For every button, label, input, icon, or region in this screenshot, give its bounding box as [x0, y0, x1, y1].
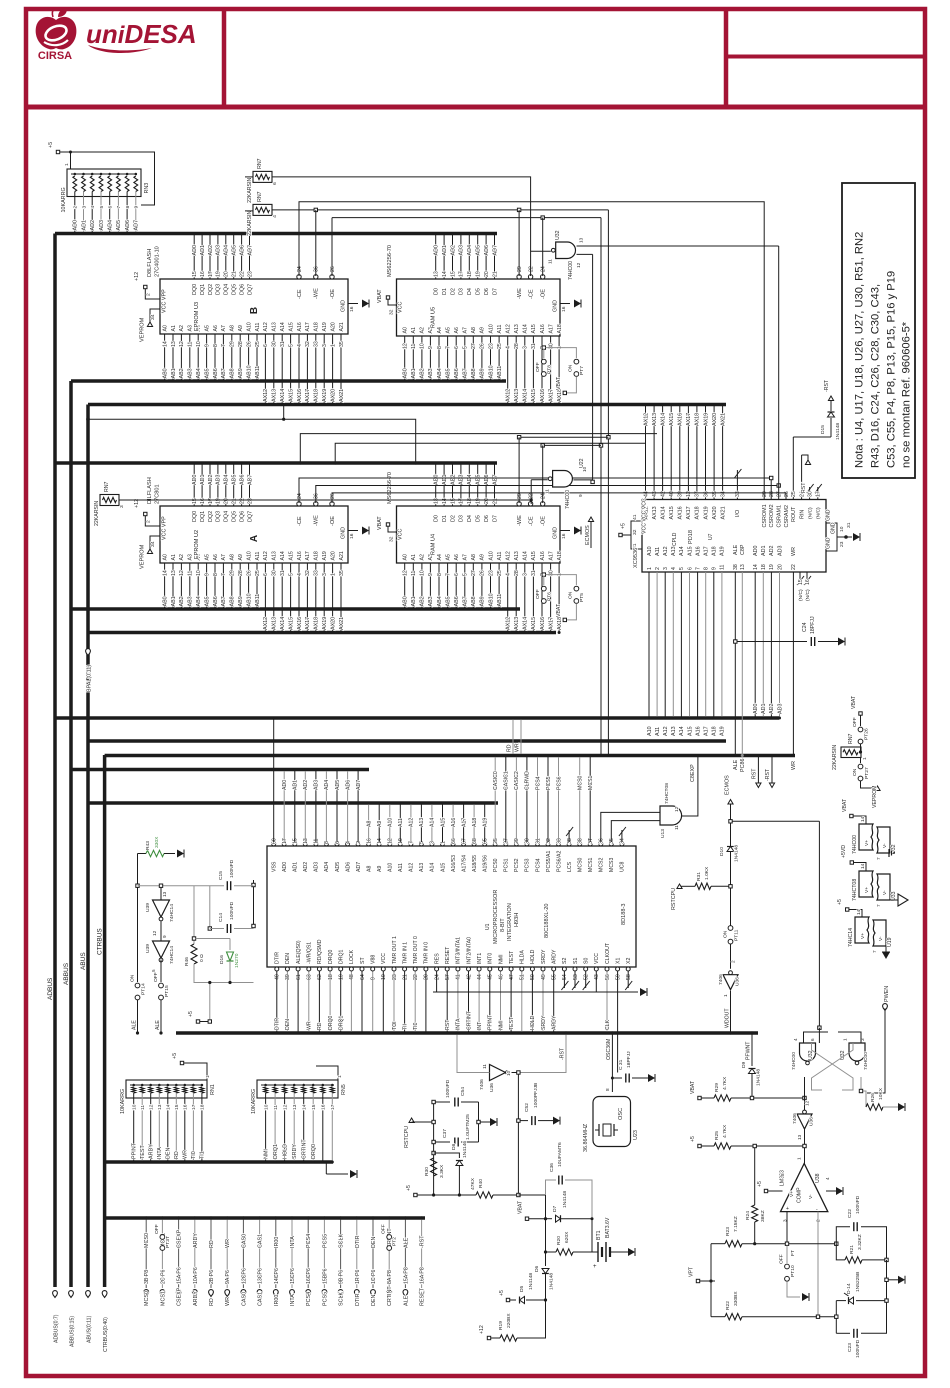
svg-text:18PFJJ: 18PFJJ: [626, 1051, 632, 1068]
inverter U36c 7406: [792, 1098, 815, 1148]
wire vert 601 channel: [599, 218, 602, 757]
svg-text:DEN: DEN: [285, 953, 291, 964]
AD bus row2: [55, 461, 497, 465]
A address bus mid: [55, 716, 779, 720]
svg-text:AB1: AB1: [171, 368, 177, 378]
svg-text:39: 39: [285, 974, 291, 980]
U7 AX pins: [643, 403, 726, 520]
svg-text:32: 32: [546, 838, 552, 844]
svg-text:U23: U23: [633, 1130, 639, 1140]
svg-text:11: 11: [411, 344, 417, 349]
svg-text:A11: A11: [255, 323, 261, 332]
svg-text:100NFD: 100NFD: [855, 1195, 861, 1214]
svg-text:A: A: [249, 535, 260, 542]
svg-text:INT2/INTA0: INT2/INTA0: [466, 937, 472, 964]
svg-text:D6: D6: [534, 1265, 540, 1272]
svg-text:32: 32: [632, 529, 638, 535]
svg-text:AD1: AD1: [200, 475, 206, 486]
svg-text:CLRWD: CLRWD: [525, 771, 531, 790]
resistor RN7c 22KARSIN: [94, 482, 125, 526]
svg-text:4: 4: [90, 206, 96, 209]
svg-text:A9: A9: [377, 866, 383, 872]
svg-text:AB3: AB3: [188, 368, 194, 378]
svg-text:10: 10: [132, 1104, 138, 1110]
AD bus row1: [55, 232, 497, 236]
svg-text:MCS0: MCS0: [144, 1233, 150, 1248]
svg-text:DQ0: DQ0: [192, 511, 198, 522]
svg-text:31: 31: [280, 570, 286, 576]
svg-text:AX12: AX12: [263, 617, 269, 630]
AB bus row2: [71, 607, 520, 611]
svg-text:ARDY: ARDY: [552, 949, 558, 964]
wire U2 OE select: [332, 493, 786, 503]
svg-text:A14: A14: [430, 863, 436, 872]
svg-text:AD2: AD2: [769, 546, 775, 557]
svg-text:2C P6: 2C P6: [160, 1269, 166, 1284]
wire RC mid gnd: [885, 1260, 905, 1301]
svg-text:DRQ0: DRQ0: [311, 1144, 317, 1159]
svg-text:11: 11: [140, 1105, 146, 1110]
svg-text:-OE: -OE: [541, 289, 547, 299]
svg-text:V-: V-: [878, 936, 884, 941]
svg-text:4: 4: [272, 215, 278, 218]
svg-text:RN7: RN7: [257, 158, 263, 168]
svg-text:AD4: AD4: [224, 245, 230, 256]
svg-text:28: 28: [514, 343, 520, 349]
svg-text:25: 25: [497, 343, 503, 349]
resistor R19 220BX: [479, 1300, 546, 1341]
svg-text:AD5: AD5: [232, 245, 238, 256]
svg-text:AB11: AB11: [255, 366, 261, 379]
svg-text:ARDY: ARDY: [149, 1144, 155, 1159]
svg-text:74HC14: 74HC14: [848, 928, 854, 947]
svg-text:620X: 620X: [564, 1231, 570, 1243]
svg-text:42: 42: [660, 491, 666, 497]
svg-text:7: 7: [409, 841, 415, 844]
svg-text:A19: A19: [483, 818, 489, 827]
svg-text:10: 10: [263, 1104, 269, 1110]
svg-text:AB3: AB3: [428, 596, 434, 606]
svg-text:7: 7: [872, 950, 877, 953]
svg-text:AD6: AD6: [239, 245, 245, 256]
svg-text:12: 12: [388, 838, 394, 844]
svg-text:15BP6: 15BP6: [322, 1268, 328, 1284]
svg-text:WR: WR: [791, 761, 797, 770]
svg-text:7: 7: [116, 206, 122, 209]
svg-text:U22: U22: [579, 458, 585, 468]
wire WE common: [272, 208, 608, 211]
svg-text:MCS1: MCS1: [588, 857, 594, 872]
svg-text:51: 51: [520, 974, 526, 980]
svg-text:B: B: [249, 307, 260, 314]
svg-text:33: 33: [314, 570, 320, 576]
svg-text:AX13: AX13: [514, 617, 520, 630]
svg-text:18: 18: [328, 974, 334, 980]
svg-text:D7: D7: [492, 288, 498, 295]
svg-text:CASIC0: CASIC0: [493, 771, 499, 790]
svg-text:INTA: INTA: [456, 1018, 462, 1030]
svg-text:COMP: COMP: [797, 1187, 803, 1203]
svg-text:100NFD: 100NFD: [229, 859, 235, 878]
svg-text:12: 12: [282, 1104, 288, 1110]
svg-text:VBAT: VBAT: [377, 289, 383, 303]
svg-text:31: 31: [531, 343, 537, 349]
svg-text:29: 29: [517, 493, 523, 499]
svg-text:AD7: AD7: [247, 245, 253, 255]
svg-text:NMI: NMI: [263, 1149, 269, 1159]
svg-text:AX21: AX21: [339, 389, 345, 402]
svg-text:AX17: AX17: [305, 617, 311, 630]
svg-text:4: 4: [506, 346, 512, 349]
svg-text:RST: RST: [752, 768, 758, 779]
svg-text:7: 7: [221, 344, 227, 347]
svg-text:330X: 330X: [154, 836, 160, 848]
svg-text:LOCK: LOCK: [349, 949, 355, 964]
svg-text:14: 14: [442, 271, 448, 277]
resistor R24 38KZ: [745, 1148, 766, 1246]
svg-text:A16: A16: [297, 551, 303, 560]
ABUS label: [80, 952, 87, 970]
svg-text:AB2: AB2: [179, 596, 185, 606]
svg-text:VBAT: VBAT: [518, 1200, 524, 1214]
wire U32 pin12 link: [577, 253, 593, 255]
svg-text:56: 56: [605, 974, 611, 980]
svg-text:1: 1: [797, 1157, 802, 1160]
svg-text:AB8: AB8: [471, 368, 477, 378]
terminal row bus: [105, 1216, 425, 1220]
svg-text:AD7: AD7: [247, 475, 253, 486]
svg-text:26: 26: [246, 341, 252, 347]
svg-text:AD2: AD2: [208, 245, 214, 256]
svg-text:AB2: AB2: [420, 368, 426, 378]
svg-text:ABBUS(0:15): ABBUS(0:15): [70, 1316, 76, 1347]
svg-text:A2: A2: [420, 554, 426, 560]
svg-text:U1: U1: [485, 923, 491, 930]
svg-text:A3: A3: [188, 554, 194, 560]
node +5 comparator: [757, 1181, 790, 1193]
svg-text:7.15KZ: 7.15KZ: [733, 1216, 739, 1232]
svg-text:8: 8: [437, 573, 443, 576]
svg-text:R26: R26: [870, 1093, 876, 1102]
jumper PT27 VEPROM: [852, 758, 880, 809]
svg-text:32: 32: [305, 570, 311, 576]
svg-text:36.864MHZ: 36.864MHZ: [583, 1123, 589, 1152]
node BPAL(0:11): [86, 633, 93, 693]
svg-text:VEPROM: VEPROM: [140, 544, 146, 569]
svg-text:CSEXP: CSEXP: [177, 1287, 183, 1306]
wire top rail 886: [138, 884, 225, 887]
svg-text:AD7: AD7: [356, 862, 362, 872]
svg-text:9: 9: [204, 573, 210, 576]
svg-text:AB6: AB6: [213, 368, 219, 378]
svg-text:AD1: AD1: [293, 780, 299, 790]
svg-text:4: 4: [297, 344, 303, 347]
svg-text:V+: V+: [789, 1191, 795, 1197]
wire vert 592 channel: [591, 254, 594, 483]
svg-text:AX13: AX13: [652, 506, 658, 519]
wire VBAT column down: [545, 1220, 547, 1266]
svg-text:U36: U36: [489, 1083, 495, 1092]
svg-text:S1: S1: [573, 958, 579, 964]
svg-text:DEN: DEN: [166, 1148, 172, 1159]
svg-text:AB3: AB3: [428, 368, 434, 378]
svg-text:DTIR: DTIR: [355, 1293, 361, 1306]
svg-text:5: 5: [99, 206, 105, 209]
svg-text:A11: A11: [398, 863, 404, 872]
svg-text:AD1: AD1: [442, 245, 448, 256]
svg-text:17: 17: [816, 491, 822, 497]
NAND gate U22 74HC00: [545, 458, 588, 509]
svg-text:6: 6: [810, 1038, 815, 1041]
svg-text:AX15: AX15: [531, 389, 537, 402]
U2 GND pin16: [341, 527, 370, 540]
svg-text:AB8: AB8: [471, 596, 477, 606]
svg-text:12: 12: [179, 570, 185, 576]
CPLD U7 box: [642, 500, 826, 573]
svg-text:AB11: AB11: [497, 366, 503, 379]
capacitor C24 18PFJJ: [734, 616, 845, 646]
U1 bottom pins: [275, 936, 633, 1072]
svg-text:AB8: AB8: [230, 596, 236, 606]
svg-text:74HC00: 74HC00: [863, 1052, 869, 1070]
svg-text:ARDY: ARDY: [193, 1291, 199, 1306]
svg-text:74HC00: 74HC00: [791, 1052, 797, 1070]
svg-text:RN3: RN3: [144, 183, 150, 194]
svg-text:-RST: -RST: [765, 768, 771, 781]
svg-text:A16: A16: [451, 818, 457, 827]
svg-text:DQ6: DQ6: [239, 284, 245, 295]
svg-text:VBAT: VBAT: [851, 695, 857, 709]
svg-text:3B P8: 3B P8: [144, 1270, 150, 1284]
svg-text:8D188-3: 8D188-3: [621, 904, 627, 925]
svg-text:1: 1: [205, 1075, 211, 1078]
svg-text:26: 26: [480, 343, 486, 349]
svg-text:1.0UFTM25: 1.0UFTM25: [465, 1114, 471, 1140]
svg-text:AX17: AX17: [305, 389, 311, 402]
svg-text:10: 10: [196, 570, 202, 576]
svg-text:C8P: C8P: [740, 544, 746, 555]
svg-text:(N/C): (N/C): [805, 589, 811, 601]
svg-text:PT5: PT5: [579, 593, 585, 602]
svg-text:+5: +5: [621, 523, 627, 529]
svg-text:10KARRG: 10KARRG: [251, 1089, 257, 1114]
svg-text:DQ0: DQ0: [192, 284, 198, 295]
svg-text:V+: V+: [860, 933, 866, 939]
svg-text:29: 29: [230, 570, 236, 576]
svg-text:30: 30: [548, 343, 554, 349]
svg-text:A14: A14: [280, 322, 286, 331]
svg-text:1C P6: 1C P6: [371, 1269, 377, 1284]
svg-text:A21: A21: [339, 551, 345, 560]
svg-text:2: 2: [356, 841, 362, 844]
svg-text:ADBUS: ADBUS: [47, 977, 54, 1000]
svg-text:HOLD: HOLD: [530, 949, 536, 964]
svg-text:35: 35: [339, 341, 345, 347]
svg-text:OSC36M: OSC36M: [606, 1039, 612, 1060]
svg-text:AD6: AD6: [125, 220, 131, 231]
svg-text:A0: A0: [403, 554, 409, 560]
diode D9 1N4148: [741, 1061, 762, 1098]
svg-text:74HC00: 74HC00: [568, 261, 574, 280]
svg-text:16: 16: [349, 533, 355, 539]
svg-text:17: 17: [330, 1104, 336, 1110]
svg-text:A12: A12: [506, 551, 512, 560]
svg-text:38: 38: [733, 564, 739, 570]
svg-text:D4: D4: [467, 288, 473, 295]
svg-text:100NFD: 100NFD: [855, 1339, 861, 1358]
svg-text:A19: A19: [720, 546, 726, 556]
svg-text:V+: V+: [864, 887, 870, 893]
svg-text:OFF: OFF: [381, 1224, 387, 1234]
svg-text:2: 2: [655, 567, 661, 570]
svg-text:VCC VCC VCC: VCC VCC VCC: [642, 498, 648, 534]
svg-text:50: 50: [530, 974, 536, 980]
svg-text:RAM U5: RAM U5: [431, 307, 437, 328]
svg-text:TOI: TOI: [392, 1021, 398, 1030]
svg-text:RD: RD: [507, 744, 513, 752]
svg-text:10: 10: [420, 570, 426, 576]
svg-text:AX14: AX14: [660, 413, 666, 426]
svg-text:HOLD: HOLD: [530, 1015, 536, 1030]
svg-text:R31: R31: [696, 872, 702, 881]
U1 left wire: [252, 880, 255, 928]
svg-text:14: 14: [753, 564, 759, 570]
svg-text:AX18: AX18: [314, 389, 320, 402]
U2 inner VCC VPP label: [162, 516, 168, 540]
svg-text:NMI: NMI: [498, 1020, 504, 1030]
svg-text:A13: A13: [671, 726, 677, 736]
svg-text:20: 20: [224, 271, 230, 277]
svg-text:1000PFJJB: 1000PFJJB: [533, 1083, 539, 1108]
svg-text:CSROM2: CSROM2: [769, 504, 775, 527]
svg-text:A8: A8: [366, 821, 372, 827]
svg-text:C24: C24: [802, 622, 808, 632]
svg-text:RIN: RIN: [799, 510, 805, 519]
svg-text:A11: A11: [497, 552, 503, 561]
wire U2 CE select: [299, 476, 773, 503]
svg-text:A15: A15: [288, 551, 294, 560]
svg-text:12: 12: [403, 570, 409, 576]
svg-text:AB10: AB10: [488, 365, 494, 378]
svg-text:AX21: AX21: [720, 413, 726, 426]
wire PWEN column: [867, 986, 890, 1093]
svg-text:DRQ1: DRQ1: [339, 1015, 345, 1030]
svg-text:MCS3: MCS3: [609, 857, 615, 872]
svg-text:D8: D8: [451, 1143, 457, 1150]
wire U36a out column: [512, 1071, 521, 1197]
svg-text:13: 13: [434, 271, 440, 277]
svg-text:AD2: AD2: [303, 780, 309, 790]
svg-text:AD6: AD6: [345, 862, 351, 872]
wire row2 WE link: [517, 436, 608, 439]
svg-text:CAS0: CAS0: [241, 1292, 247, 1306]
svg-text:A0: A0: [403, 327, 409, 333]
svg-text:AX14: AX14: [660, 506, 666, 519]
svg-text:80C188XL-20: 80C188XL-20: [544, 903, 550, 938]
svg-text:DQ7: DQ7: [247, 511, 253, 522]
resistor network RN3 10KARRG: [61, 169, 150, 235]
svg-text:AB4: AB4: [196, 596, 202, 606]
svg-text:PWEN: PWEN: [884, 986, 890, 1002]
svg-text:5: 5: [419, 841, 425, 844]
svg-text:AX21: AX21: [339, 617, 345, 630]
svg-text:AD5: AD5: [476, 245, 482, 256]
svg-text:A5: A5: [204, 554, 210, 560]
svg-text:no se montan Ref. 960606-5*: no se montan Ref. 960606-5*: [901, 321, 913, 468]
node VBAT PT26: [851, 695, 870, 754]
svg-text:INT: INT: [477, 1021, 483, 1030]
svg-text:21: 21: [232, 498, 238, 504]
svg-text:RD/QSMD: RD/QSMD: [317, 939, 323, 964]
svg-text:A17: A17: [548, 551, 554, 560]
AND gate U13 74HCT08: [660, 783, 682, 838]
svg-text:R43: R43: [145, 841, 151, 850]
svg-text:A14: A14: [679, 726, 685, 736]
svg-text:AB0: AB0: [403, 596, 409, 606]
svg-text:19: 19: [769, 564, 775, 570]
resistor network RN1 10KARRG: [120, 1080, 216, 1164]
svg-text:AD5: AD5: [232, 475, 238, 486]
RN1 pin1 +5 wire: [172, 1053, 211, 1080]
svg-text:15: 15: [293, 838, 299, 844]
svg-text:V-: V-: [808, 1194, 814, 1199]
svg-text:OFF: OFF: [153, 972, 159, 982]
svg-text:A8: A8: [366, 866, 372, 872]
svg-text:AD7: AD7: [492, 245, 498, 256]
NAND latch gate U32b: [840, 1038, 869, 1070]
svg-text:ALE: ALE: [132, 1020, 138, 1030]
svg-text:14: 14: [162, 341, 168, 347]
jumper PT5: [546, 575, 586, 604]
node +5 cluster: [188, 981, 212, 1023]
jumper PT3T: [154, 1224, 171, 1250]
U5 device label: [387, 245, 393, 277]
svg-text:PC86: PC86: [740, 759, 746, 773]
svg-text:AD7: AD7: [492, 475, 498, 486]
svg-text:25: 25: [255, 341, 261, 347]
svg-text:18: 18: [467, 498, 473, 504]
svg-text:D15: D15: [820, 425, 826, 434]
diode D7 1N4148: [546, 1191, 594, 1223]
U7 inner labels: [672, 530, 714, 546]
jumper PT7: [546, 348, 586, 377]
svg-text:5: 5: [288, 344, 294, 347]
svg-text:3T: 3T: [588, 837, 594, 844]
svg-text:2B P6: 2B P6: [209, 1270, 215, 1284]
svg-text:AD2: AD2: [769, 704, 775, 715]
svg-text:VPT: VPT: [689, 1266, 695, 1277]
svg-text:7: 7: [876, 857, 881, 860]
header divider right: [724, 9, 729, 107]
svg-text:22KARSIN: 22KARSIN: [247, 178, 253, 203]
svg-text:SCLK: SCLK: [339, 1292, 345, 1306]
svg-text:74HCT08: 74HCT08: [852, 879, 858, 901]
CTRBUS vertical bus: [103, 755, 107, 1287]
svg-text:21: 21: [492, 498, 498, 504]
svg-text:18PFJJ: 18PFJJ: [810, 616, 816, 634]
svg-text:34: 34: [150, 314, 156, 320]
AX bus row2: [88, 631, 556, 635]
svg-text:25: 25: [493, 838, 499, 844]
svg-text:+5: +5: [406, 1185, 412, 1191]
svg-text:CSEXP: CSEXP: [177, 1229, 183, 1248]
svg-text:43: 43: [594, 974, 600, 980]
svg-text:330BX: 330BX: [733, 1291, 739, 1306]
capacitor C22 100NFD: [836, 1195, 886, 1260]
svg-text:1N4148: 1N4148: [734, 845, 740, 862]
control bus U1 bottom: [176, 1031, 758, 1035]
jumper PT8: [535, 346, 553, 377]
